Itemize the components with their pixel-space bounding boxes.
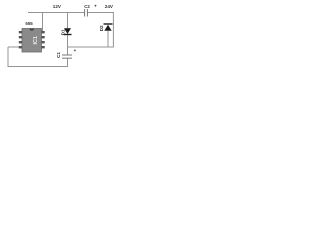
svg-text:12V: 12V: [53, 4, 62, 9]
svg-text:D1: D1: [60, 29, 65, 35]
svg-text:+: +: [94, 5, 97, 10]
svg-text:D2: D2: [99, 25, 104, 31]
diode D2 cathode bar: [104, 23, 113, 25]
IC1 body: [22, 29, 42, 53]
diode D1 bottom wire: [67, 35, 69, 55]
IC1 notch: [30, 29, 35, 31]
svg-text:24V: 24V: [105, 4, 114, 9]
wire node A horizontal: [68, 46, 114, 48]
diode D1 cathode bar: [64, 34, 72, 36]
svg-text:555: 555: [25, 21, 33, 26]
wire left vertical: [7, 47, 9, 67]
capacitor C2 plates: [84, 9, 86, 17]
IC1 pin 6 right: [42, 41, 45, 43]
wire VCC drop to IC pin: [42, 13, 44, 32]
capacitor C1 bottom wire: [67, 58, 69, 67]
diode D2 anode wire: [107, 31, 109, 47]
diode D1 top wire: [67, 13, 69, 29]
capacitor C1 top plate: [62, 54, 72, 56]
IC1 pin 7 right: [42, 36, 45, 38]
IC1 pin 5 right: [42, 46, 45, 48]
IC1 pin 8 right: [42, 31, 45, 33]
wire bottom rail: [8, 66, 68, 68]
wire right vertical drop: [112, 13, 114, 48]
wire to IC output pin: [8, 46, 20, 48]
diode D1 triangle: [64, 28, 71, 34]
capacitor C1 bottom plate: [62, 57, 72, 59]
IC1 pin 1 left: [19, 31, 22, 33]
IC1 pin 2 left: [19, 36, 22, 38]
IC1 pin 4 left: [19, 46, 22, 48]
wire top 12V rail left segment: [28, 12, 85, 14]
svg-text:+: +: [74, 49, 77, 54]
diode D2 triangle: [104, 25, 111, 31]
svg-text:IC1: IC1: [33, 36, 39, 44]
wire top rail right segment (24V node): [87, 12, 114, 14]
svg-text:C2: C2: [84, 4, 90, 9]
svg-text:C1: C1: [56, 52, 61, 58]
IC1 pin 3 left: [19, 41, 22, 43]
